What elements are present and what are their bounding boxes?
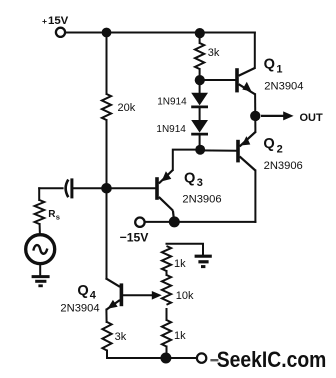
wire Q2 base (200, 149, 237, 151)
svg-text:2N3904: 2N3904 (264, 81, 303, 93)
wire capacitor to node J3 (73, 187, 106, 189)
wire Q2 collector vertical (254, 171, 256, 222)
resistor 20k (102, 94, 111, 120)
wire -15V rail (146, 221, 256, 223)
wire source to ground (39, 264, 41, 276)
transistor Q1 2N3904 (237, 68, 255, 94)
terminal bottom output (197, 353, 206, 362)
junction node J2 (195, 28, 205, 38)
transistor Q3 2N3906 (157, 170, 174, 222)
transistor Q4 2N3904 (mirrored) (106, 278, 122, 309)
svg-text:2N3906: 2N3906 (182, 193, 221, 205)
svg-text:−15V: −15V (120, 231, 150, 245)
potentiometer 10k (162, 275, 171, 305)
svg-text:Q: Q (77, 283, 88, 299)
resistor 3k (Q4 emitter) (102, 322, 111, 351)
wire D1 to D2 (199, 108, 201, 120)
svg-text:2: 2 (277, 144, 283, 156)
resistor 1k upper (162, 246, 171, 271)
svg-text:1k: 1k (174, 330, 186, 342)
ground (source) (32, 277, 50, 286)
svg-text:4: 4 (90, 289, 97, 301)
svg-text:1N914: 1N914 (157, 96, 187, 107)
svg-text:15V: 15V (48, 15, 69, 27)
terminal +15V (56, 28, 65, 37)
wire 3k bottom corner (106, 351, 108, 359)
wire left branch lower (106, 120, 108, 279)
wire pot chain top to ground (167, 244, 204, 255)
svg-text:2N3906: 2N3906 (264, 160, 303, 172)
svg-text:3k: 3k (115, 331, 127, 343)
resistor 1k lower (162, 320, 171, 347)
svg-text:Q: Q (184, 171, 195, 187)
wire left branch upper (106, 33, 108, 95)
diode D1 1N914 (191, 93, 208, 107)
junction node J4 (195, 75, 205, 85)
wiper arrow of 10k pot (152, 291, 162, 300)
wire pot wiper from Q4 base (122, 294, 154, 296)
terminal -15V (135, 218, 144, 227)
wire J5 to Q3 emitter (173, 150, 200, 170)
wire Q3 base (107, 187, 156, 189)
wire input corner down to Rs (38, 188, 40, 200)
junction node J7 (160, 353, 171, 364)
wire Q1 emitter to Q2 emitter vertical (254, 94, 256, 132)
wire top rail (66, 32, 255, 34)
svg-text:10k: 10k (176, 290, 194, 302)
svg-text:OUT: OUT (300, 112, 324, 124)
junction node J1 (102, 28, 112, 38)
wire 3k bottom to diode D1 (199, 69, 201, 93)
wire bottom run (107, 357, 196, 359)
junction node J3 (101, 183, 112, 194)
svg-text:2N3904: 2N3904 (60, 302, 99, 314)
resistor 3k top (195, 43, 204, 69)
wire Q1 base (200, 79, 236, 81)
wire 3k top lead Q4 (105, 310, 107, 322)
junction node J5 (195, 145, 205, 155)
ground (divider top) (195, 256, 212, 266)
svg-text:Q: Q (263, 136, 274, 152)
wire D2 to node J5 (199, 134, 201, 149)
source VS (sine generator) (26, 235, 55, 264)
wire 1k to 10k (166, 271, 168, 275)
svg-text:3k: 3k (208, 47, 220, 59)
watermark dash (210, 359, 218, 361)
svg-text:s: s (56, 213, 60, 222)
svg-text:SeekIC.com: SeekIC.com (217, 347, 326, 372)
svg-text:+: + (42, 16, 47, 26)
svg-text:1N914: 1N914 (156, 124, 186, 135)
svg-text:Q: Q (264, 57, 275, 73)
svg-text:20k: 20k (118, 102, 136, 114)
wire 10k to 1k (166, 309, 168, 320)
node OUT junction (250, 111, 260, 121)
svg-text:3: 3 (197, 177, 203, 189)
transistor Q2 2N3906 (238, 132, 255, 171)
resistor Rs (35, 200, 45, 224)
wire input to capacitor (39, 187, 62, 189)
wire 3k top lead (199, 33, 201, 43)
svg-text:1k: 1k (174, 258, 186, 270)
wire 1k to bottom node (166, 347, 168, 359)
svg-text:1: 1 (276, 64, 282, 76)
wire Rs to source (39, 224, 41, 235)
junction node J6 (169, 216, 180, 227)
wire OUT arrow (261, 111, 294, 120)
diode D2 1N914 (191, 120, 208, 134)
wire Q1 collector drop (254, 33, 256, 69)
capacitor C1 (66, 178, 72, 198)
